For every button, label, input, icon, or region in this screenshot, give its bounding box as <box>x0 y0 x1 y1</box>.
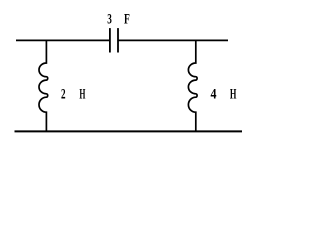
svg-text:4: 4 <box>211 85 217 102</box>
inductor L1 value label 2 H <box>61 85 86 103</box>
svg-text:H: H <box>79 85 86 103</box>
inductor L2 value label 4 H <box>211 85 237 102</box>
capacitor value label 3 F <box>107 10 130 27</box>
svg-text:3: 3 <box>107 10 112 27</box>
wire top-left segment <box>16 39 110 41</box>
svg-text:2: 2 <box>61 85 66 102</box>
capacitor C1 plate right <box>117 28 119 52</box>
inductor L2 (right branch with coil) <box>188 40 197 132</box>
svg-text:H: H <box>230 85 237 102</box>
svg-text:F: F <box>124 10 130 27</box>
wire bottom <box>15 130 243 132</box>
wire top-right segment <box>118 39 228 41</box>
inductor L1 (left branch with coil) <box>39 40 48 132</box>
capacitor C1 plate left <box>109 28 111 52</box>
